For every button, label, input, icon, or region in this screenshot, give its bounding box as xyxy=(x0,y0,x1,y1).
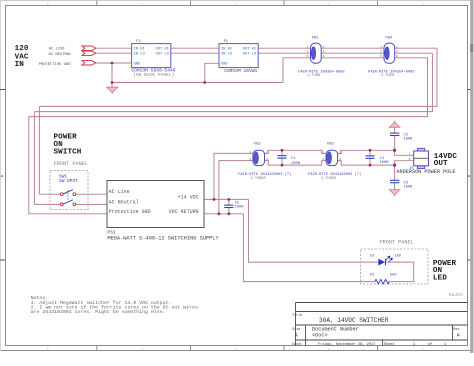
wire FB3 pin 4 jog to bottom rail toward J5 xyxy=(337,161,394,166)
svg-text:100N: 100N xyxy=(404,185,413,189)
ferrite bead FB3 xyxy=(308,143,361,181)
svg-text:+14 VDC: +14 VDC xyxy=(178,195,199,201)
wire protective gnd junction drop xyxy=(111,63,113,83)
svg-text:D1: D1 xyxy=(370,255,375,259)
svg-text:IN: IN xyxy=(15,61,25,69)
svg-text:4: 4 xyxy=(396,50,398,53)
svg-text:OUT HI: OUT HI xyxy=(243,48,256,52)
svg-text:3: 3 xyxy=(380,50,382,53)
ground earth below C3 xyxy=(389,190,400,197)
wire left drop to SW1 pole2 xyxy=(34,112,60,205)
wire C1 bottom lead xyxy=(281,158,283,165)
wire PS1 VDC RETURN rail xyxy=(204,213,243,215)
svg-text:VDC RETURN: VDC RETURN xyxy=(169,209,199,215)
svg-text:FRONT PANEL: FRONT PANEL xyxy=(380,239,414,245)
wire FB4 pin 6 right then down then left (gnd return) xyxy=(29,58,428,117)
svg-text:AC Neutral: AC Neutral xyxy=(109,199,139,205)
wire C4 bottom lead xyxy=(369,158,371,165)
svg-text:1: 1 xyxy=(409,152,411,155)
ferrite bead FB1 xyxy=(298,36,344,78)
svg-text:Sheet: Sheet xyxy=(384,342,395,347)
svg-text:are 2643102002 cores. Might b: are 2643102002 cores. Might be something… xyxy=(31,309,166,315)
svg-text:100N: 100N xyxy=(291,162,300,166)
svg-text:Title: Title xyxy=(292,313,302,318)
svg-text:ANDERSON POWER POLE: ANDERSON POWER POLE xyxy=(396,169,455,175)
ground earth above C2 (flipped) xyxy=(389,121,400,128)
svg-text:OUT LO: OUT LO xyxy=(156,53,170,57)
wire SW1 pole1 to PS1 AC Live xyxy=(76,193,107,195)
capacitor C5 xyxy=(224,201,243,209)
notes xyxy=(31,295,198,315)
svg-text:GND: GND xyxy=(134,63,141,67)
svg-text:2: 2 xyxy=(409,158,411,161)
port AC LIVE xyxy=(82,46,96,50)
svg-text:6: 6 xyxy=(323,55,325,58)
wire PROTECTIVE GND port to F2 GND xyxy=(96,62,132,64)
wire FB4 pin 4 right then down then left (AC neutral return) xyxy=(34,53,432,111)
ferrite bead FB2 xyxy=(238,143,291,181)
svg-text:1: 1 xyxy=(307,45,309,48)
wire RETURN drop to LED box xyxy=(243,214,374,282)
wire AC LIVE port to F2 IN HI xyxy=(96,47,132,49)
svg-text:3: 3 xyxy=(249,158,251,161)
switch SW1 xyxy=(50,171,88,210)
svg-text:120: 120 xyxy=(15,45,29,53)
svg-text:2: 2 xyxy=(339,151,341,154)
svg-text:of: of xyxy=(428,342,432,347)
svg-text:AC LIVE: AC LIVE xyxy=(49,48,66,52)
wire C3 earth lead xyxy=(394,183,396,190)
svg-text:2-TURNS: 2-TURNS xyxy=(251,177,266,181)
power supply PS1 xyxy=(107,181,219,242)
wire C5 bottom lead xyxy=(228,208,230,214)
svg-text:OUT HI: OUT HI xyxy=(156,48,169,52)
svg-text:LED: LED xyxy=(433,275,447,283)
svg-text:FB4: FB4 xyxy=(385,36,392,40)
svg-text:CORCOM 10VW1: CORCOM 10VW1 xyxy=(224,68,257,74)
port AC NEUTRAL xyxy=(82,51,96,55)
wire D1 cathode to R1 xyxy=(385,262,413,282)
wire FB2 pin 2 jog up to top rail xyxy=(265,150,327,153)
svg-text:FRONT PANEL: FRONT PANEL xyxy=(54,161,88,167)
svg-text:Friday, September 29, 2017: Friday, September 29, 2017 xyxy=(318,342,376,347)
LED enclosure dashed box xyxy=(361,249,429,284)
wire +14 riser to FB2 pin 1 xyxy=(214,153,253,199)
svg-text:PROTECTIVE GND: PROTECTIVE GND xyxy=(39,63,72,67)
svg-text:LED: LED xyxy=(395,255,402,259)
svg-text:2: 2 xyxy=(323,45,325,48)
svg-text:OUT LO: OUT LO xyxy=(243,53,257,57)
svg-text:<Doc>: <Doc> xyxy=(312,332,328,338)
svg-text:4: 4 xyxy=(323,50,325,53)
wire PS1 +14 VDC rail xyxy=(204,198,249,200)
wire gnd riser to FB1 pin 5 xyxy=(283,58,311,83)
ferrite bead FB4 xyxy=(368,36,414,78)
svg-text:(ON BACK PANEL): (ON BACK PANEL) xyxy=(133,72,174,78)
wire FB1 pin 2 to FB4 pin 1 xyxy=(321,47,384,49)
wire F1 OUT HI to FB1 pin 1 xyxy=(258,47,310,49)
filter F1 xyxy=(219,40,258,74)
wire +14 drop to LED box xyxy=(249,199,379,262)
svg-text:1: 1 xyxy=(444,343,446,347)
wire C4 top lead xyxy=(369,150,371,156)
wire FB2 pin 4 jog down to bottom rail xyxy=(265,161,327,166)
wire C1 top lead xyxy=(281,150,283,155)
svg-text:Size: Size xyxy=(292,327,300,332)
svg-text:AC NEUTRAL: AC NEUTRAL xyxy=(49,53,73,57)
capacitor C1 xyxy=(277,156,300,167)
svg-text:GND: GND xyxy=(221,63,228,67)
port PROTECTIVE GND xyxy=(82,61,96,65)
capacitor C3 xyxy=(390,180,412,189)
wire FB3 pin 2 jog to top rail toward J5 xyxy=(337,150,394,153)
svg-text:5: 5 xyxy=(380,55,382,58)
svg-text:A: A xyxy=(295,332,298,338)
label POWER ON SWITCH xyxy=(54,134,82,157)
svg-text:MEGA-WATT S-400-12 SWITCHING S: MEGA-WATT S-400-12 SWITCHING SUPPLY xyxy=(107,236,219,242)
svg-text:Rev: Rev xyxy=(453,328,459,332)
svg-text:2: 2 xyxy=(266,151,268,154)
wire SW1 pole2 to PS1 AC Neutral xyxy=(76,203,107,205)
svg-text:Protective GND: Protective GND xyxy=(109,209,151,215)
wire FB1 pin 6 to FB4 pin 5 xyxy=(321,57,384,59)
wire F1 GND stub down to ground bus xyxy=(205,63,219,82)
svg-text:Date:: Date: xyxy=(292,343,303,347)
svg-text:FAIR-RITE 264354-0002: FAIR-RITE 264354-0002 xyxy=(298,71,344,75)
svg-text:4: 4 xyxy=(339,158,341,161)
label 14VDC OUT xyxy=(434,153,458,168)
svg-text:1: 1 xyxy=(249,151,251,154)
svg-text:F2: F2 xyxy=(136,40,140,44)
ground earth (left) xyxy=(107,87,118,94)
svg-text:AC Live: AC Live xyxy=(109,189,130,195)
svg-text:F1: F1 xyxy=(224,40,229,44)
capacitor C2 xyxy=(390,133,412,141)
svg-text:1: 1 xyxy=(413,343,415,347)
wire F2 OUT HI to F1 IN HI xyxy=(171,47,219,49)
capacitor C4 xyxy=(365,156,388,165)
wire FB4 pin 2 right then down then left (AC live return) xyxy=(39,48,437,106)
svg-text:3: 3 xyxy=(322,158,324,161)
wire jog to J5 pin 1 xyxy=(395,150,414,155)
resistor R1 560 xyxy=(370,274,396,284)
svg-text:IN LO: IN LO xyxy=(221,53,233,57)
svg-text:IN HI: IN HI xyxy=(221,48,232,52)
svg-text:1: 1 xyxy=(322,151,324,154)
svg-text:K6JCA: K6JCA xyxy=(449,292,463,298)
wire C2 bottom lead xyxy=(394,136,396,151)
svg-text:2: 2 xyxy=(396,45,398,48)
svg-text:A: A xyxy=(457,332,460,338)
svg-text:30A, 14VDC SWITCHER: 30A, 14VDC SWITCHER xyxy=(319,317,389,324)
svg-text:IN LO: IN LO xyxy=(134,53,146,57)
wire left drop to SW1 pole1 xyxy=(39,106,60,194)
LED D1 xyxy=(370,255,402,266)
svg-text:2-TURNS: 2-TURNS xyxy=(321,177,336,181)
label 120 VAC IN xyxy=(15,45,29,69)
wire AC NEUTRAL port to F2 IN LO xyxy=(96,52,132,54)
svg-text:4: 4 xyxy=(266,158,268,161)
svg-text:OUT: OUT xyxy=(434,160,448,168)
svg-text:IN HI: IN HI xyxy=(134,48,145,52)
wire C3 top lead xyxy=(394,165,396,180)
wire RETURN riser to FB2 pin 3 xyxy=(219,161,253,214)
connector J5 xyxy=(396,148,455,175)
wire jog to J5 pin 2 xyxy=(395,161,414,165)
svg-text:C1: C1 xyxy=(291,157,296,161)
wire F1 OUT LO to FB1 pin 3 xyxy=(258,52,310,54)
svg-text:VAC: VAC xyxy=(15,53,29,61)
wire ground bus xyxy=(112,82,283,84)
svg-text:6: 6 xyxy=(396,55,398,58)
svg-text:FB1: FB1 xyxy=(312,36,319,40)
svg-text:FB3: FB3 xyxy=(327,143,334,147)
wire left drop protective gnd to PS1 xyxy=(29,117,107,214)
svg-text:3: 3 xyxy=(307,50,309,53)
svg-text:100N: 100N xyxy=(404,137,413,141)
svg-text:SW DPST: SW DPST xyxy=(59,178,78,184)
svg-text:100N: 100N xyxy=(235,206,244,210)
label POWER ON LED xyxy=(433,260,457,283)
svg-text:R1: R1 xyxy=(370,274,375,278)
wire C5 top lead xyxy=(228,199,230,205)
wire F2 OUT LO to F1 IN LO xyxy=(171,52,219,54)
filter F2 xyxy=(131,40,175,78)
svg-text:SWITCH: SWITCH xyxy=(54,148,82,156)
svg-text:1: 1 xyxy=(380,45,382,48)
svg-text:560: 560 xyxy=(390,274,397,278)
svg-text:1-TURN: 1-TURN xyxy=(307,74,320,78)
wire earth lead xyxy=(111,83,113,88)
wire FB1 pin 4 to FB4 pin 3 xyxy=(321,52,384,54)
svg-text:5: 5 xyxy=(307,55,309,58)
svg-text:1-TURN: 1-TURN xyxy=(381,74,394,78)
svg-text:FB2: FB2 xyxy=(254,143,261,147)
title block xyxy=(296,303,468,346)
svg-text:100N: 100N xyxy=(380,161,389,165)
wire C2 earth lead xyxy=(394,127,396,133)
